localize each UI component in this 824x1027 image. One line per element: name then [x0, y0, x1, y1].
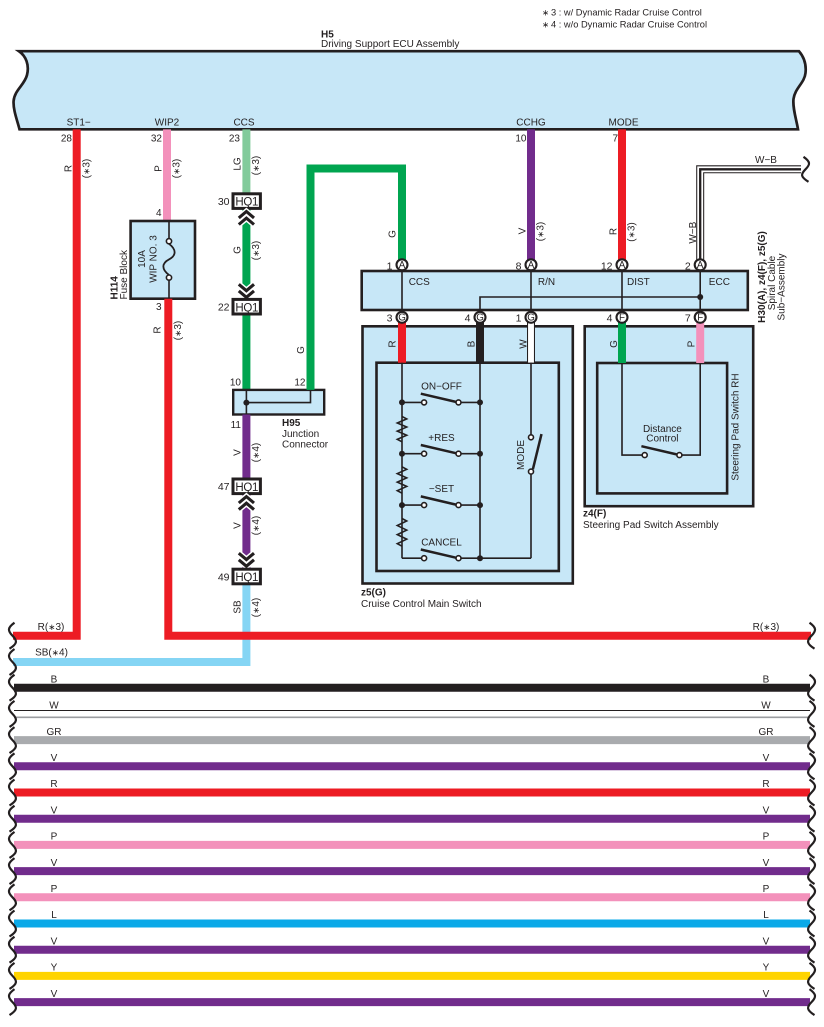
wire P from WIP2 pin 32 to fuse block — [163, 129, 171, 221]
svg-text:12: 12 — [601, 260, 613, 272]
svg-text:1: 1 — [387, 260, 393, 272]
svg-text:R(∗3): R(∗3) — [38, 622, 65, 633]
svg-text:F: F — [697, 313, 703, 324]
break L right — [808, 911, 815, 937]
svg-text:G: G — [387, 230, 398, 238]
connector pin 12 A — [617, 259, 628, 270]
ECU band H5 (Driving Support ECU Assembly) — [14, 51, 806, 129]
wire G loop from H95 pin 12 up and over to CCS A-connector pin 1 — [311, 169, 403, 390]
wire R from fuse down, right to break (R(*3)) — [168, 299, 811, 636]
bus wire V — [14, 815, 810, 823]
svg-text:DIST: DIST — [627, 277, 650, 288]
svg-text:∗ 4 : w/o Dynamic Radar Cruise: ∗ 4 : w/o Dynamic Radar Cruise Control — [542, 20, 707, 30]
switch ON-OFF — [402, 401, 421, 403]
connector pin 4 F — [617, 312, 628, 323]
break R right — [808, 780, 815, 806]
svg-text:HQ1: HQ1 — [235, 482, 258, 494]
junction connector H95 box — [233, 390, 324, 415]
svg-text:G: G — [527, 313, 535, 324]
svg-text:(∗3): (∗3) — [82, 159, 93, 179]
svg-text:1: 1 — [516, 312, 522, 324]
svg-text:ON−OFF: ON−OFF — [421, 382, 462, 393]
switch MODE — [516, 363, 542, 559]
bus wire Y — [14, 972, 810, 980]
break symbol R right — [808, 623, 815, 649]
svg-text:R: R — [64, 165, 75, 172]
svg-text:Y: Y — [51, 963, 58, 974]
z5 B bus line — [479, 363, 481, 559]
bus wire V — [14, 946, 810, 954]
svg-text:Cruise Control Main Switch: Cruise Control Main Switch — [361, 599, 482, 610]
svg-text:SB(∗4): SB(∗4) — [35, 648, 68, 659]
svg-text:ST1−: ST1− — [67, 118, 91, 129]
svg-text:4: 4 — [156, 208, 162, 219]
break V right — [808, 753, 815, 779]
svg-text:L: L — [51, 910, 57, 921]
break V right — [808, 989, 815, 1015]
svg-text:Fuse Block: Fuse Block — [119, 249, 130, 299]
junction dots on left ladder — [399, 399, 405, 405]
svg-text:Junction: Junction — [282, 429, 319, 440]
bus wire V — [14, 762, 810, 770]
break symbol R left — [9, 623, 16, 649]
svg-text:P: P — [51, 884, 58, 895]
svg-text:(∗3): (∗3) — [536, 222, 547, 242]
svg-text:10: 10 — [230, 378, 242, 389]
connector pin 1 A — [397, 259, 408, 270]
break B left — [9, 675, 16, 701]
spiral cable sub-assembly H30(A),z4(F),z5(G) band — [362, 271, 748, 310]
connector 30 HQ1 — [233, 194, 260, 209]
spiral cable internal wire A2-F7 — [699, 270, 701, 313]
connector pin 3 G — [397, 312, 408, 323]
svg-text:H95: H95 — [282, 418, 301, 429]
svg-text:Sub−Assembly: Sub−Assembly — [777, 254, 788, 321]
svg-text:R: R — [762, 779, 769, 790]
svg-text:P: P — [687, 340, 698, 347]
break V right — [808, 806, 815, 832]
svg-text:B: B — [467, 340, 478, 347]
switch CANCEL — [402, 557, 421, 559]
H95 internal wire pin10-pin11-pin12 — [246, 390, 310, 415]
bus wire R — [14, 789, 810, 797]
z5 left ladder line — [401, 363, 403, 559]
svg-text:L: L — [763, 910, 769, 921]
svg-text:23: 23 — [229, 134, 241, 145]
svg-text:R: R — [50, 779, 57, 790]
svg-text:G: G — [609, 340, 620, 348]
svg-text:z4(F): z4(F) — [583, 509, 606, 520]
svg-text:G: G — [476, 313, 484, 324]
svg-text:G: G — [233, 246, 244, 254]
break V left — [9, 989, 16, 1015]
svg-text:W: W — [49, 701, 59, 712]
svg-text:(∗4): (∗4) — [251, 443, 262, 463]
break Y left — [9, 963, 16, 989]
spiral cable internal wire G4 to ECC node — [480, 297, 700, 313]
break B right — [808, 675, 815, 701]
svg-text:V: V — [763, 989, 770, 1000]
svg-text:LG: LG — [233, 157, 244, 171]
bus wire V — [14, 998, 810, 1006]
bus wire B — [14, 684, 810, 692]
svg-text:CCHG: CCHG — [516, 118, 546, 129]
svg-text:(∗3): (∗3) — [251, 156, 262, 176]
svg-text:G: G — [398, 313, 406, 324]
svg-text:HQ1: HQ1 — [235, 197, 258, 209]
svg-text:A: A — [399, 260, 406, 271]
svg-text:ECC: ECC — [709, 277, 730, 288]
z5 bottom link CANCEL row to MODE line — [480, 557, 531, 559]
z5 inner box — [377, 363, 559, 571]
break V right — [808, 858, 815, 884]
svg-text:Steering Pad Switch Assembly: Steering Pad Switch Assembly — [583, 520, 719, 531]
bus wire GR — [14, 736, 810, 744]
wire B from G4 into z5 — [476, 321, 484, 363]
wire SB(*4) from connector 49 down and left to break — [13, 583, 246, 662]
spiral cable internal wire A1-G3 — [401, 270, 403, 313]
chevrons above 49 HQ1 — [239, 560, 254, 566]
chevrons above 22 HQ1 — [239, 291, 254, 297]
svg-text:12: 12 — [294, 378, 306, 389]
svg-text:MODE: MODE — [516, 440, 527, 470]
z4 inner box — [597, 363, 727, 493]
svg-text:4: 4 — [607, 312, 613, 324]
connector pin 7 F — [695, 312, 706, 323]
svg-text:47: 47 — [218, 481, 230, 493]
wire LG from CCS pin 23 to connector 30 HQ1 — [242, 129, 250, 194]
wire G from F4 into z4 — [618, 321, 626, 363]
spiral cable internal wire A12-F4 — [621, 270, 623, 313]
svg-text:V: V — [763, 753, 770, 764]
svg-text:z5(G): z5(G) — [361, 588, 386, 599]
svg-text:10: 10 — [515, 134, 527, 145]
wire G between HQ1 connectors — [242, 208, 250, 300]
svg-text:GR: GR — [759, 727, 774, 738]
svg-text:V: V — [233, 449, 244, 456]
svg-text:W: W — [761, 701, 771, 712]
svg-text:V: V — [233, 522, 244, 529]
svg-text:P: P — [51, 832, 58, 843]
break GR right — [808, 727, 815, 753]
break symbol SB left — [9, 649, 16, 675]
break W right — [808, 701, 815, 727]
break P right — [808, 832, 815, 858]
svg-text:MODE: MODE — [609, 118, 639, 129]
label H95 Junction Connector — [282, 418, 329, 451]
label z5(G) Cruise Control Main Switch — [361, 588, 482, 611]
svg-text:3: 3 — [387, 312, 393, 324]
wire W from G1 into z5 (white w/ outline) — [527, 321, 535, 363]
svg-text:(∗4): (∗4) — [251, 516, 262, 536]
break P left — [9, 832, 16, 858]
svg-text:22: 22 — [218, 302, 230, 314]
svg-text:V: V — [51, 753, 58, 764]
svg-text:V: V — [763, 936, 770, 947]
wire R from MODE pin 7 to spiral A12 — [618, 129, 626, 260]
svg-text:30: 30 — [218, 196, 230, 208]
svg-text:Control: Control — [646, 433, 678, 444]
bus wire V — [14, 867, 810, 875]
wire V(*4) from H95 pin 11 to connector 47 HQ1 — [242, 415, 250, 480]
bus wire L — [14, 920, 810, 928]
svg-text:CCS: CCS — [233, 118, 254, 129]
fuse block H114 box — [131, 221, 195, 299]
switch Distance Control — [622, 363, 700, 458]
svg-text:WIP2: WIP2 — [155, 118, 180, 129]
svg-text:W−B: W−B — [755, 155, 777, 166]
break GR left — [9, 727, 16, 753]
svg-text:7: 7 — [612, 134, 618, 145]
resistor between +RES and -SET — [397, 467, 406, 493]
label H5 Driving Support ECU Assembly — [321, 30, 459, 51]
svg-text:(∗3): (∗3) — [251, 241, 262, 261]
junction dot H95 — [243, 400, 249, 406]
svg-text:P: P — [763, 884, 770, 895]
svg-text:10A: 10A — [137, 250, 148, 268]
wire V(*4) between 47 and 49 — [242, 493, 250, 570]
svg-text:49: 49 — [218, 571, 230, 583]
svg-text:V: V — [763, 805, 770, 816]
steering pad switch z4(F) outer box — [585, 326, 754, 506]
svg-text:V: V — [763, 858, 770, 869]
connector pin 8 A — [526, 259, 537, 270]
break R left — [9, 780, 16, 806]
svg-text:A: A — [619, 260, 626, 271]
break P right — [808, 884, 815, 910]
svg-text:28: 28 — [61, 134, 73, 145]
svg-text:+RES: +RES — [428, 433, 455, 444]
svg-text:SB: SB — [233, 600, 244, 614]
bus wire W — [14, 710, 810, 712]
break L left — [9, 911, 16, 937]
svg-text:G: G — [296, 346, 307, 354]
fuse 10A WIP NO. 3 symbol — [163, 221, 174, 299]
svg-text:F: F — [619, 313, 625, 324]
svg-text:W: W — [519, 339, 530, 349]
svg-text:P: P — [154, 165, 165, 172]
svg-text:CANCEL: CANCEL — [421, 537, 462, 548]
svg-text:V: V — [51, 989, 58, 1000]
resistor between -SET and CANCEL — [397, 519, 406, 547]
chevrons below 30 HQ1 — [239, 212, 254, 218]
svg-text:4: 4 — [465, 312, 471, 324]
break V left — [9, 753, 16, 779]
connector 47 HQ1 — [233, 479, 260, 494]
break V right — [808, 937, 815, 963]
break V left — [9, 937, 16, 963]
svg-text:(∗3): (∗3) — [172, 159, 183, 179]
connector pin 2 A — [695, 259, 706, 270]
svg-text:V: V — [517, 227, 528, 234]
bus wire P — [14, 893, 810, 901]
svg-text:V: V — [51, 805, 58, 816]
svg-text:HQ1: HQ1 — [235, 572, 258, 584]
svg-text:R(∗3): R(∗3) — [753, 622, 780, 633]
label z4(F) Steering Pad Switch Assembly — [583, 509, 719, 532]
svg-text:A: A — [528, 260, 535, 271]
svg-text:Connector: Connector — [282, 440, 329, 451]
svg-text:A: A — [697, 260, 704, 271]
connector pin 1 G — [526, 312, 537, 323]
spiral cable internal wire A8-G1 — [530, 270, 532, 313]
label H30(A), z4(F), z5(G) Spiral Cable Sub-Assembly — [757, 231, 788, 323]
break Y right — [808, 963, 815, 989]
svg-text:3: 3 — [156, 302, 162, 313]
wire W-B from right break to spiral A2 (white w/ black stripe) — [700, 169, 801, 260]
svg-text:7: 7 — [685, 312, 691, 324]
connector pin 4 G — [475, 312, 486, 323]
svg-text:B: B — [51, 674, 58, 685]
chevrons below 47 HQ1 — [239, 497, 254, 503]
svg-text:11: 11 — [231, 420, 242, 431]
switch +RES — [402, 453, 421, 455]
svg-text:WIP NO. 3: WIP NO. 3 — [149, 235, 160, 283]
break V left — [9, 858, 16, 884]
svg-text:V: V — [51, 858, 58, 869]
svg-text:−SET: −SET — [429, 484, 454, 495]
svg-text:V: V — [51, 936, 58, 947]
switch -SET — [402, 504, 421, 506]
svg-text:(∗3): (∗3) — [627, 222, 638, 242]
wire R from G3 into z5 — [398, 321, 406, 363]
wire V from CCHG pin 10 to spiral A8 — [527, 129, 535, 260]
wire P from F7 into z4 — [696, 321, 704, 363]
svg-text:Driving Support ECU Assembly: Driving Support ECU Assembly — [321, 39, 459, 50]
svg-text:Y: Y — [763, 963, 770, 974]
connector 49 HQ1 — [233, 569, 260, 584]
connector 22 HQ1 — [233, 299, 260, 314]
svg-text:2: 2 — [685, 260, 691, 272]
svg-text:GR: GR — [47, 727, 62, 738]
break symbol W-B right — [802, 157, 809, 182]
bus wire P — [14, 841, 810, 849]
svg-text:HQ1: HQ1 — [235, 302, 258, 314]
svg-text:∗ 3 : w/ Dynamic Radar Cruise: ∗ 3 : w/ Dynamic Radar Cruise Control — [542, 8, 702, 18]
svg-text:8: 8 — [516, 260, 522, 272]
junction dot ECC node — [697, 294, 703, 300]
break P left — [9, 884, 16, 910]
svg-text:R: R — [153, 326, 164, 333]
svg-text:R: R — [608, 228, 619, 235]
wire R from ST1- pin 28 down, left to break (R(*3)) — [13, 129, 77, 635]
svg-text:CCS: CCS — [409, 277, 430, 288]
svg-text:(∗3): (∗3) — [173, 321, 184, 341]
resistor between ON-OFF and +RES — [397, 416, 406, 441]
junction dots on B bus — [477, 399, 483, 405]
svg-text:W−B: W−B — [688, 221, 699, 243]
svg-text:32: 32 — [151, 134, 163, 145]
wire G from connector 22 HQ1 to H95 pin 10 — [242, 313, 250, 390]
svg-text:P: P — [763, 832, 770, 843]
svg-text:Steering Pad Switch RH: Steering Pad Switch RH — [731, 373, 742, 480]
svg-text:B: B — [763, 674, 770, 685]
svg-text:R/N: R/N — [538, 277, 555, 288]
cruise control main switch z5(G) outer box — [363, 326, 573, 583]
break V left — [9, 806, 16, 832]
svg-text:(∗4): (∗4) — [251, 598, 262, 618]
svg-text:R: R — [387, 340, 398, 347]
break W left — [9, 701, 16, 727]
